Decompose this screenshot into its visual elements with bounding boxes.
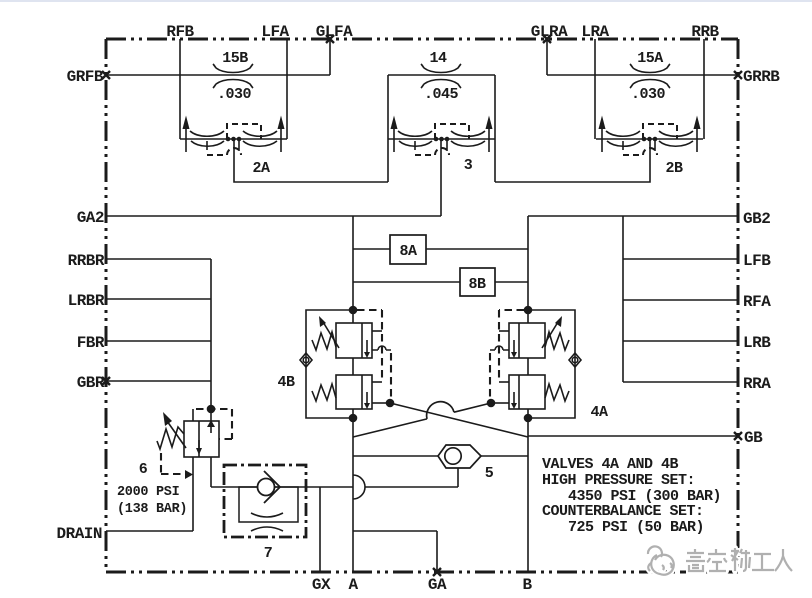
wire GA branch [353, 531, 437, 572]
svg-text:GRRB: GRRB [743, 68, 780, 86]
svg-text:.030: .030 [631, 86, 666, 103]
enclosure border (dash-dot) [106, 39, 738, 572]
wire GX drop [319, 487, 321, 572]
wire GB horizontal [528, 435, 738, 437]
svg-text:VALVES 4A AND 4B: VALVES 4A AND 4B [542, 456, 679, 473]
shuttle valve 3 [388, 116, 495, 156]
wire GBR [106, 380, 211, 382]
wire box7 to valve5 bottom [365, 468, 458, 487]
top page edge strip [0, 0, 812, 2]
relief valve 6 [157, 409, 232, 474]
svg-text:15B: 15B [222, 50, 248, 67]
svg-text:A: A [348, 576, 358, 594]
wire GLRA-GRRB horizontal [547, 74, 738, 76]
component box 8B [460, 268, 495, 296]
orifice 15A [630, 64, 670, 88]
wire LRBR [106, 298, 211, 300]
svg-text:RFA: RFA [743, 293, 771, 311]
wire right label bus [622, 216, 624, 382]
svg-text:RRBR: RRBR [68, 252, 105, 270]
svg-text:2000 PSI: 2000 PSI [117, 485, 180, 500]
svg-text:8A: 8A [399, 243, 417, 260]
wire RFB vertical [179, 39, 181, 139]
svg-text:B: B [522, 576, 532, 594]
wire valve-3 drop [440, 139, 442, 216]
svg-text:RFB: RFB [166, 23, 194, 41]
svg-text:4A: 4A [590, 404, 608, 421]
wire 8A line [353, 248, 528, 250]
pilot diagonal 4A to A bus with hop [353, 402, 491, 437]
wire LRB [623, 340, 738, 342]
component box 8A [390, 235, 426, 264]
wire drain line [106, 457, 193, 531]
svg-text:4B: 4B [277, 374, 295, 391]
wire GLRA vertical [546, 39, 548, 75]
wire left pilot bus [352, 216, 354, 572]
wire left label bus [210, 259, 212, 421]
watermark logo and text [648, 546, 792, 574]
shuttle valve 2B [596, 116, 703, 156]
svg-text:GB2: GB2 [743, 210, 770, 228]
svg-text:2A: 2A [252, 160, 270, 177]
svg-text:LRB: LRB [743, 334, 771, 352]
shuttle valve 2A [180, 116, 287, 156]
counterbalance valve 4A (mirror) [487, 306, 581, 423]
wire orifice-14 box right [494, 75, 496, 182]
wire orifice-14 box left [387, 75, 389, 182]
svg-text:GA: GA [428, 576, 447, 594]
svg-text:LFA: LFA [261, 23, 289, 41]
wire jump over A bus [353, 475, 365, 499]
svg-text:GLFA: GLFA [316, 23, 353, 41]
wire orifice-14 box top [388, 74, 495, 76]
svg-text:GA2: GA2 [77, 209, 104, 227]
svg-text:LRBR: LRBR [68, 292, 105, 310]
svg-text:RRB: RRB [691, 23, 719, 41]
counterbalance valve 4B [300, 306, 394, 423]
wire RRA [623, 381, 738, 383]
svg-text:FBR: FBR [77, 334, 105, 352]
svg-text:14: 14 [429, 50, 447, 67]
wire valve6 to box7 main line [211, 457, 353, 487]
wire RFA [623, 299, 738, 301]
svg-text:GB: GB [744, 429, 763, 447]
wire valve-2A drop [234, 139, 388, 182]
svg-text:6: 6 [139, 461, 148, 478]
svg-text:GLRA: GLRA [531, 23, 568, 41]
port X markers [102, 35, 742, 576]
wire LRA vertical [594, 39, 596, 139]
svg-text:LRA: LRA [581, 23, 609, 41]
wire FBR [106, 340, 211, 342]
svg-text:.030: .030 [217, 86, 252, 103]
svg-text:HIGH PRESSURE SET:: HIGH PRESSURE SET: [542, 472, 695, 489]
wire GB2 horizontal [528, 215, 738, 217]
svg-text:.045: .045 [424, 86, 459, 103]
svg-text:3: 3 [464, 157, 473, 174]
wire LFA vertical [286, 39, 288, 139]
svg-text:GRFB: GRFB [67, 68, 104, 86]
wire LFB [623, 258, 738, 260]
svg-text:2B: 2B [665, 160, 683, 177]
svg-text:COUNTERBALANCE SET:: COUNTERBALANCE SET: [542, 503, 704, 520]
wire GLFA vertical [329, 39, 331, 75]
svg-text:LFB: LFB [743, 252, 771, 270]
pilot diagonal 4B to GB bus [390, 403, 528, 437]
wire valve-2B drop [495, 139, 650, 182]
svg-text:GBR: GBR [77, 374, 105, 392]
svg-text:725 PSI (50 BAR): 725 PSI (50 BAR) [568, 519, 704, 536]
wire 8B line [353, 281, 528, 283]
wire RRBR [106, 258, 211, 260]
svg-text:15A: 15A [637, 50, 663, 67]
svg-text:(138 BAR): (138 BAR) [117, 502, 187, 517]
wire GA2 horizontal [106, 215, 441, 217]
orifice 14 [421, 64, 461, 88]
svg-text:GX: GX [312, 576, 331, 594]
svg-text:7: 7 [264, 545, 273, 562]
watermark halo [648, 546, 792, 574]
orifice 15B [213, 64, 253, 88]
svg-text:DRAIN: DRAIN [56, 525, 102, 543]
wire check-valve-5 line [353, 455, 528, 457]
svg-text:RRA: RRA [743, 375, 771, 393]
svg-text:8B: 8B [468, 276, 486, 293]
svg-text:5: 5 [485, 465, 494, 482]
filter box 7 [224, 465, 306, 537]
wire GRFB-GLFA horizontal [106, 74, 330, 76]
check valve 5 [438, 445, 481, 468]
wire RRB vertical [703, 39, 705, 139]
wire right pilot bus [527, 216, 529, 572]
